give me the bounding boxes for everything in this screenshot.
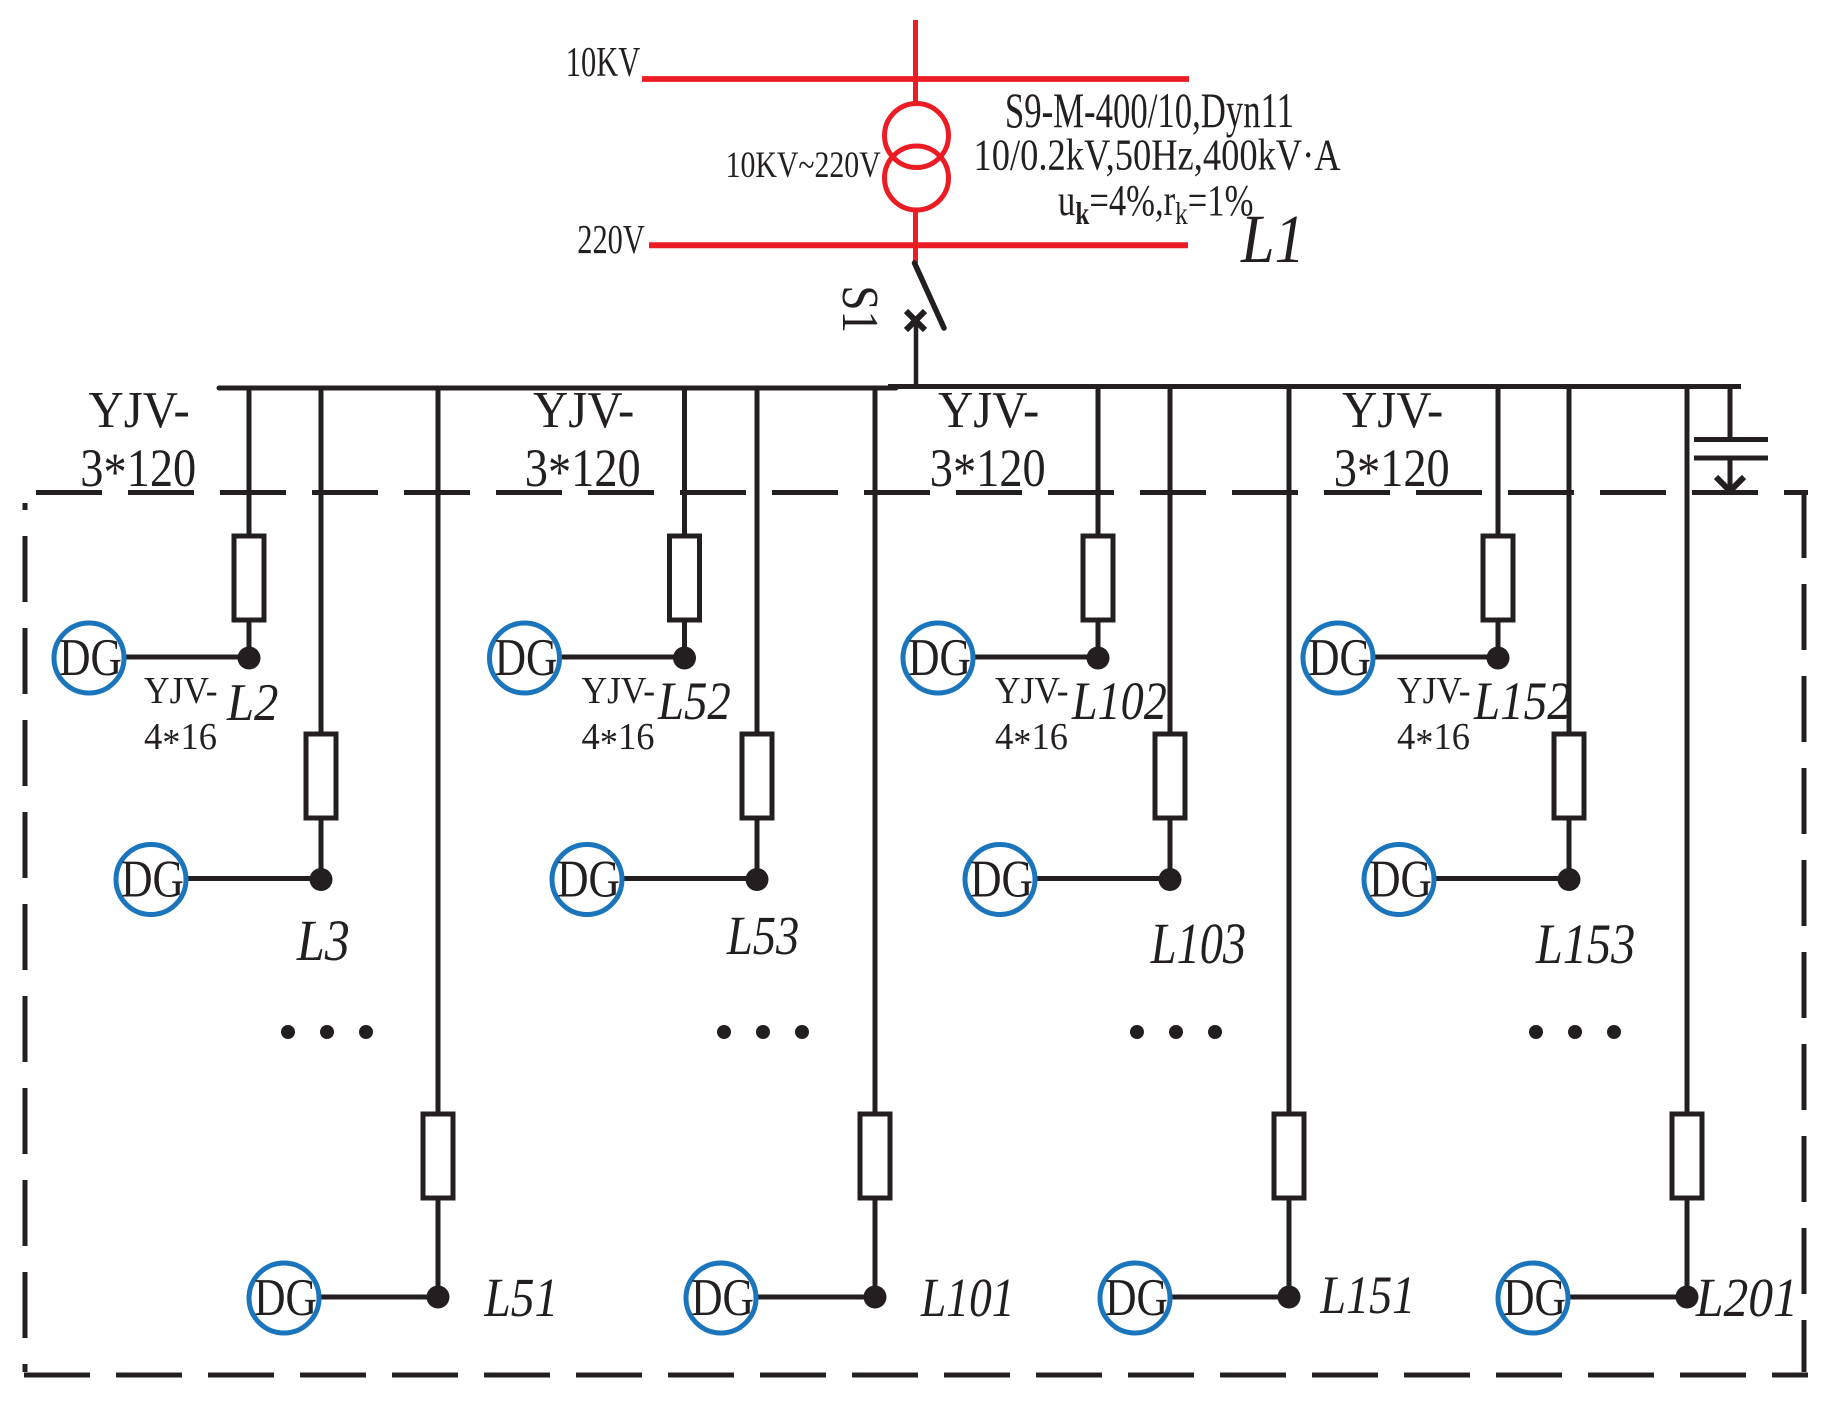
svg-text:3*120: 3*120 (1334, 438, 1450, 502)
svg-text:L152: L152 (1473, 671, 1571, 731)
svg-text:DG: DG (1105, 1269, 1168, 1327)
svg-text:L51: L51 (483, 1268, 558, 1329)
svg-text:DG: DG (1503, 1269, 1566, 1327)
svg-text:L101: L101 (920, 1267, 1015, 1328)
svg-text:DG: DG (121, 851, 184, 909)
svg-text:L151: L151 (1319, 1265, 1415, 1325)
svg-text:YJV-: YJV- (533, 381, 634, 439)
svg-text:DG: DG (59, 629, 122, 687)
svg-text:L53: L53 (726, 906, 799, 966)
svg-text:4*16: 4*16 (144, 716, 217, 764)
svg-text:YJV-: YJV- (582, 669, 656, 711)
svg-text:YJV-: YJV- (144, 669, 218, 711)
svg-text:3*120: 3*120 (930, 438, 1046, 502)
svg-text:DG: DG (970, 851, 1033, 909)
svg-text:L103: L103 (1150, 912, 1246, 976)
svg-text:S1: S1 (831, 285, 889, 333)
svg-text:L102: L102 (1071, 671, 1167, 731)
svg-text:L2: L2 (226, 674, 279, 732)
svg-text:YJV-: YJV- (995, 669, 1069, 711)
svg-text:YJV-: YJV- (1342, 381, 1443, 439)
svg-text:10KV: 10KV (566, 38, 641, 85)
svg-text:220V: 220V (577, 217, 644, 262)
svg-text:DG: DG (691, 1269, 754, 1327)
svg-text:DG: DG (495, 629, 558, 687)
svg-text:4*16: 4*16 (1397, 716, 1470, 764)
svg-text:10/0.2kV,50Hz,400kV·A: 10/0.2kV,50Hz,400kV·A (974, 130, 1341, 179)
svg-text:4*16: 4*16 (582, 716, 655, 764)
svg-text:YJV-: YJV- (1397, 669, 1471, 711)
svg-text:4*16: 4*16 (995, 716, 1068, 764)
svg-text:L1: L1 (1240, 201, 1305, 278)
svg-text:3*120: 3*120 (80, 438, 196, 502)
svg-text:DG: DG (1369, 851, 1432, 909)
svg-text:DG: DG (557, 851, 620, 909)
svg-text:YJV-: YJV- (938, 381, 1039, 439)
svg-text:DG: DG (1308, 629, 1371, 687)
svg-text:L201: L201 (1695, 1268, 1798, 1329)
svg-text:L52: L52 (657, 671, 731, 731)
svg-text:L153: L153 (1535, 913, 1635, 976)
svg-text:10KV~220V: 10KV~220V (726, 145, 881, 186)
svg-text:DG: DG (254, 1269, 317, 1327)
svg-text:DG: DG (908, 629, 971, 687)
svg-text:YJV-: YJV- (89, 381, 190, 439)
svg-text:L3: L3 (296, 909, 350, 973)
svg-text:3*120: 3*120 (525, 438, 641, 502)
